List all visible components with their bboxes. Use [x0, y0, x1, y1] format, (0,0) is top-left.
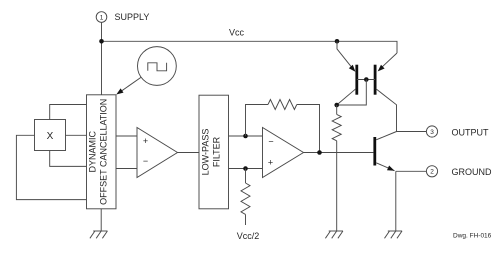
resistor R2 Vcc/2 reference	[245, 169, 247, 184]
resistor R1 hysteresis feedback	[268, 100, 297, 110]
svg-text:FILTER: FILTER	[211, 136, 221, 167]
svg-text:DYNAMIC: DYNAMIC	[88, 131, 98, 173]
wire base to mirror node	[337, 80, 367, 106]
wire amp output to filter	[178, 152, 200, 154]
transistor Q2 PNP right bar	[374, 65, 377, 95]
Q2 collector	[376, 89, 397, 132]
svg-text:X: X	[47, 131, 54, 142]
node comparator plus input	[243, 166, 248, 171]
pin 1 SUPPLY terminal	[96, 12, 107, 23]
svg-text:GROUND: GROUND	[452, 167, 492, 177]
svg-text:Dwg. FH-016: Dwg. FH-016	[453, 233, 492, 240]
block U1 dynamic offset cancellation	[87, 95, 117, 209]
wire emitter to pin 2	[396, 170, 427, 172]
Q1 collector	[337, 89, 356, 105]
Q2 emitter with arrow	[381, 53, 398, 69]
wire block to ground	[100, 209, 102, 231]
svg-text:−: −	[268, 137, 273, 147]
wire feedback right to output	[297, 105, 320, 153]
ground at R3	[325, 231, 343, 238]
wire comparator output to transistor base	[304, 152, 374, 154]
wire emitter to ground	[395, 171, 397, 231]
wire supply vertical	[101, 22, 103, 95]
ground at offset cancellation block	[90, 231, 108, 238]
svg-text:LOW-PASS: LOW-PASS	[200, 129, 210, 176]
clock oscillator circle	[138, 47, 177, 86]
wire PNP bases	[357, 79, 375, 81]
wire block to amp top	[116, 135, 137, 137]
svg-text:+: +	[268, 157, 273, 167]
transistor Q1 PNP left bar	[355, 65, 358, 95]
wire hall top	[50, 105, 87, 120]
svg-text:SUPPLY: SUPPLY	[115, 12, 150, 22]
pin 3 OUTPUT terminal	[426, 126, 437, 137]
svg-text:Vcc/2: Vcc/2	[237, 231, 260, 241]
wire collector to pin 3	[397, 131, 427, 133]
wire filter to comparator bottom	[229, 168, 263, 170]
node Vcc junction at PNP emitters	[335, 39, 340, 44]
block U2 low-pass filter	[199, 95, 229, 209]
Q3 collector	[376, 132, 396, 140]
wire hall left loop	[16, 135, 86, 199]
wire hall bottom	[50, 151, 87, 167]
svg-text:2: 2	[430, 169, 434, 176]
Q3 emitter with arrow	[376, 163, 394, 171]
wire block to amp bottom	[116, 168, 137, 170]
svg-text:+: +	[143, 136, 148, 146]
ground at output emitter	[385, 231, 403, 238]
svg-text:Vcc: Vcc	[229, 27, 245, 37]
resistor R3 pull-down	[336, 105, 338, 114]
svg-text:1: 1	[100, 14, 104, 21]
node supply junction	[99, 39, 104, 44]
node comparator output	[317, 150, 322, 155]
wire feedback left vertical	[246, 105, 269, 137]
wire Vcc rail	[102, 41, 398, 53]
node mirror output	[334, 103, 339, 108]
svg-text:3: 3	[430, 129, 434, 136]
node PNP base junction	[364, 77, 369, 82]
wire R3 to ground	[336, 141, 338, 231]
svg-text:OUTPUT: OUTPUT	[452, 128, 490, 138]
node comparator minus input	[243, 134, 248, 139]
wire hall right	[66, 134, 87, 136]
svg-text:OFFSET CANCELLATION: OFFSET CANCELLATION	[99, 99, 109, 205]
transistor Q3 NPN output bar	[373, 137, 376, 166]
hall element X	[35, 120, 66, 151]
clock square-wave symbol	[148, 63, 167, 71]
wire filter to comparator top	[229, 135, 263, 137]
arrow clock to offset-cancellation block	[121, 77, 142, 92]
comparator U3	[263, 128, 304, 178]
svg-text:−: −	[143, 156, 148, 166]
op-amp A1	[137, 128, 178, 178]
Q1 emitter with arrow	[337, 41, 353, 69]
pin 2 GROUND terminal	[426, 166, 437, 177]
